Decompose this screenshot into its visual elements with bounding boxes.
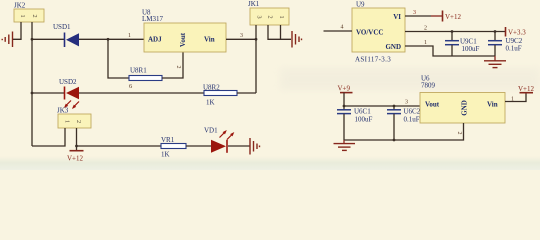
- svg-text:2: 2: [424, 26, 427, 32]
- connector JK1: [248, 0, 289, 25]
- wire U8R1 to LM317 pin2, pin number 2: [162, 52, 183, 78]
- svg-text:U6C2: U6C2: [404, 108, 421, 116]
- svg-text:7809: 7809: [421, 82, 436, 90]
- svg-text:2: 2: [31, 14, 38, 17]
- wire JK3 pin2 down: [75, 128, 78, 151]
- power V+12 (right of U9 pin3): [431, 11, 462, 22]
- svg-text:3: 3: [240, 33, 243, 39]
- svg-text:2: 2: [75, 120, 82, 123]
- svg-text:3: 3: [413, 10, 416, 16]
- wire top row (node to diode USD1): [31, 38, 65, 41]
- svg-text:ADJ: ADJ: [148, 36, 162, 44]
- capacitor U9C1: [445, 30, 480, 56]
- svg-text:GND: GND: [461, 100, 469, 116]
- resistor VR1: [161, 136, 186, 159]
- svg-text:VO/VCC: VO/VCC: [356, 29, 383, 37]
- svg-text:V+3.3: V+3.3: [508, 28, 526, 36]
- wire ADJ branch down to U8R1: [108, 39, 129, 78]
- wire U9 pin4 stub: [324, 25, 353, 32]
- resistor U8R1: [129, 67, 162, 91]
- LED USD2: [59, 78, 79, 109]
- capacitor U6C2: [387, 106, 421, 140]
- svg-text:4: 4: [341, 25, 344, 31]
- svg-text:U6C1: U6C1: [354, 108, 371, 116]
- wire JK2 pin2 vertical down: [31, 22, 33, 146]
- ground (below caps, U9): [484, 56, 506, 68]
- svg-text:Vin: Vin: [204, 36, 215, 44]
- svg-text:100uF: 100uF: [462, 45, 480, 53]
- svg-text:1: 1: [511, 97, 514, 103]
- wire U6 pin3 row: [343, 100, 420, 108]
- svg-text:V+12: V+12: [67, 155, 84, 163]
- svg-text:Vout: Vout: [425, 101, 440, 109]
- svg-text:3: 3: [405, 100, 408, 106]
- regulator U6 7809: [420, 75, 505, 124]
- svg-text:1: 1: [19, 14, 26, 17]
- svg-text:JK2: JK2: [14, 2, 26, 10]
- ground (bottom left of U6): [334, 140, 356, 150]
- wire rail node to LED USD2: [31, 92, 65, 95]
- svg-text:1: 1: [424, 40, 427, 46]
- svg-text:Vout: Vout: [179, 32, 187, 47]
- wire U9 pin3 to V+12: [405, 10, 431, 16]
- ground (earth, right of VD1): [250, 138, 260, 155]
- wire U6 ground rail: [344, 123, 464, 141]
- svg-text:100uF: 100uF: [355, 116, 373, 124]
- wire U9 pin2 rail: [405, 26, 505, 32]
- svg-text:3: 3: [256, 15, 263, 18]
- wire JK3 pin1 to left rail: [32, 128, 65, 146]
- svg-text:0.1uF: 0.1uF: [404, 116, 420, 124]
- wire LED to resistor U8R2: [79, 92, 204, 94]
- ground (earth, left of JK2): [2, 32, 12, 48]
- ground (earth, right of JK1): [292, 31, 302, 48]
- svg-text:Vin: Vin: [487, 101, 498, 109]
- connector JK2: [14, 2, 44, 23]
- svg-text:LM317: LM317: [142, 15, 164, 23]
- svg-text:U9: U9: [356, 1, 365, 9]
- connector JK3: [57, 107, 91, 129]
- wire U9 pin1 GND to rail: [405, 40, 495, 56]
- wire JK3 pin2 to VR1: [77, 145, 162, 147]
- svg-text:JK3: JK3: [57, 107, 69, 115]
- wire JK1 pins 2,1 to ground: [268, 25, 291, 39]
- regulator U9 AS1117-3.3: [352, 1, 405, 64]
- op-amp U8 LM317 regulator: [142, 9, 226, 53]
- svg-text:2: 2: [267, 15, 274, 18]
- svg-text:1: 1: [278, 15, 285, 18]
- svg-text:U8R1: U8R1: [130, 67, 147, 75]
- svg-text:0.1uF: 0.1uF: [506, 45, 522, 53]
- capacitor U6C1: [337, 106, 373, 140]
- wire VD1 to ground: [228, 145, 250, 147]
- svg-text:1: 1: [64, 120, 71, 123]
- svg-text:1K: 1K: [161, 151, 170, 159]
- wire JK2 pin1 to ground: [13, 22, 21, 39]
- svg-text:USD1: USD1: [53, 23, 71, 31]
- svg-text:VD1: VD1: [204, 127, 218, 135]
- power V+12 (below JK3): [67, 151, 84, 163]
- wire diode to ADJ pin, pin 1: [79, 33, 144, 41]
- wire VR1 to VD1: [186, 145, 211, 147]
- wire JK1 pin3 vertical: [255, 25, 258, 93]
- wire U8R2 to JK1 pin3 line: [237, 92, 256, 94]
- svg-text:V+12: V+12: [518, 85, 535, 93]
- resistor U8R2: [203, 84, 237, 107]
- svg-text:V+9: V+9: [338, 85, 351, 93]
- svg-text:USD2: USD2: [59, 78, 77, 86]
- svg-text:VR1: VR1: [161, 136, 175, 144]
- svg-text:2: 2: [456, 132, 462, 135]
- capacitor U9C2: [488, 30, 523, 56]
- power V+9: [338, 85, 353, 107]
- svg-text:ASI117-3.3: ASI117-3.3: [355, 56, 391, 64]
- svg-text:1: 1: [128, 33, 131, 39]
- svg-text:1K: 1K: [206, 99, 215, 107]
- wire U6 pin1 to V+12: [505, 93, 526, 103]
- power V+12 (top right of U6): [518, 85, 535, 93]
- svg-text:JK1: JK1: [248, 0, 260, 8]
- power V+3.3: [506, 27, 527, 37]
- LED VD1: [204, 127, 234, 153]
- svg-text:2: 2: [175, 66, 181, 69]
- svg-text:VI: VI: [393, 13, 401, 21]
- svg-text:GND: GND: [385, 43, 401, 51]
- svg-text:V+12: V+12: [445, 13, 462, 21]
- diode USD1: [53, 23, 79, 47]
- wire Vin to JK1, pin 3: [226, 33, 256, 39]
